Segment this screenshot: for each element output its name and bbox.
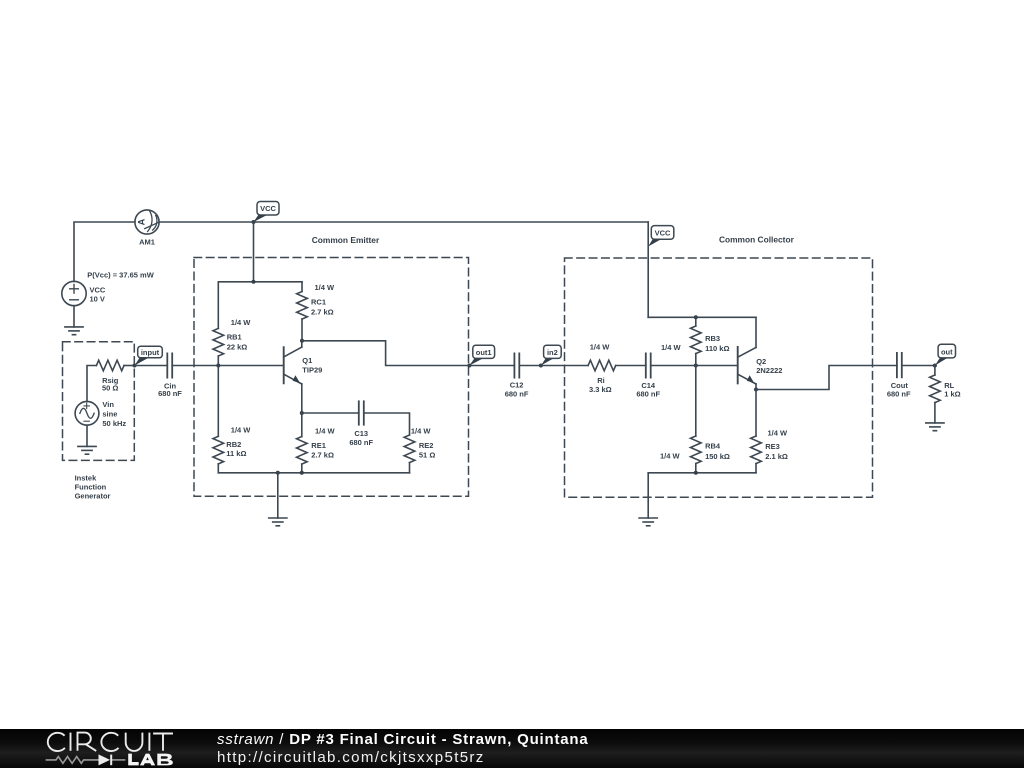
resistor RC1	[297, 292, 308, 320]
svg-text:RB2: RB2	[226, 440, 241, 449]
logo letter I	[70, 733, 72, 751]
labels RB2	[226, 425, 251, 458]
logo resistor	[46, 757, 99, 764]
node bottom rail RB4 junction	[694, 471, 698, 475]
labels RE3	[765, 428, 788, 461]
logo diode wire	[112, 759, 126, 761]
resistor RE2	[404, 435, 415, 463]
svg-text:680 nF: 680 nF	[636, 390, 660, 399]
labels Q1	[302, 356, 322, 375]
svg-text:Function: Function	[75, 483, 107, 492]
svg-text:11 kΩ: 11 kΩ	[226, 449, 246, 458]
wire Vin to Rsig	[87, 366, 96, 402]
node collector junction	[300, 339, 304, 343]
net flag input	[135, 346, 163, 365]
net flag out1	[469, 345, 494, 365]
svg-text:RE1: RE1	[311, 441, 326, 450]
svg-text:VCC: VCC	[655, 229, 671, 238]
logo LAB letter B	[157, 754, 173, 766]
wire Cin to Q1 base	[172, 365, 284, 367]
svg-text:Q2: Q2	[756, 357, 766, 366]
svg-text:Q1: Q1	[302, 356, 312, 365]
svg-text:10 V: 10 V	[90, 294, 105, 303]
capacitor C12	[514, 353, 519, 377]
svg-text:680 nF: 680 nF	[158, 389, 182, 398]
svg-text:Common Collector: Common Collector	[719, 235, 795, 245]
footer title line	[217, 731, 589, 748]
logo LAB letter A	[140, 754, 155, 766]
logo diode bar	[110, 755, 112, 766]
svg-text:1/4 W: 1/4 W	[315, 283, 336, 292]
node RB3 base junction	[694, 364, 698, 368]
wire C14 to Q2 base	[651, 365, 738, 367]
ground (Vin)	[78, 446, 96, 454]
resistor RL	[930, 375, 941, 403]
transistor Q2	[738, 317, 756, 389]
svg-text:TIP29: TIP29	[302, 366, 322, 375]
logo letter T	[153, 734, 173, 751]
ground (RL)	[926, 423, 944, 431]
capacitor C13	[359, 401, 364, 424]
labels C13	[349, 429, 373, 447]
svg-text:C12: C12	[510, 381, 524, 390]
wire CC top rail	[648, 316, 756, 318]
ground (CC)	[639, 518, 657, 526]
resistor RB4	[691, 436, 702, 464]
labels RL	[944, 381, 960, 399]
wire Ri to C14	[616, 365, 646, 367]
svg-text:Common Emitter: Common Emitter	[312, 235, 380, 245]
svg-text:2N2222: 2N2222	[756, 366, 782, 375]
labels RB4	[660, 442, 730, 461]
resistor RB3	[691, 326, 702, 354]
svg-text:1/4 W: 1/4 W	[231, 318, 252, 327]
logo LAB letter L	[128, 754, 139, 766]
resistor Ri	[588, 360, 616, 371]
logo letter C	[48, 733, 65, 751]
resistor Rsig	[96, 360, 124, 371]
svg-text:A: A	[136, 218, 146, 225]
svg-text:1 kΩ: 1 kΩ	[944, 390, 960, 399]
svg-text:1/4 W: 1/4 W	[661, 343, 682, 352]
node input junction	[133, 364, 137, 368]
node out1 junction	[467, 364, 471, 368]
capacitor C14	[646, 353, 651, 377]
labels Cin	[158, 382, 182, 399]
labels RB1	[227, 318, 252, 351]
ammeter AM1	[135, 210, 159, 246]
node Q2 emitter junction	[754, 388, 758, 392]
svg-text:680 nF: 680 nF	[349, 438, 373, 447]
svg-text:2.7 kΩ: 2.7 kΩ	[311, 450, 334, 459]
Common Emitter dashed box	[194, 258, 469, 497]
svg-text:VCC: VCC	[90, 285, 106, 294]
wire out to RL	[934, 366, 936, 376]
svg-text:RB3: RB3	[705, 334, 720, 343]
node emitter junction	[300, 411, 304, 415]
labels Cout	[887, 381, 911, 398]
CircuitLab logo	[0, 729, 210, 768]
wire RE3 to bottom rail	[755, 464, 757, 473]
logo letter C2	[101, 733, 118, 751]
wire rail to RC1	[301, 282, 303, 292]
Common Collector dashed box	[565, 258, 873, 497]
labels RE1	[311, 426, 335, 459]
resistor RB2	[213, 436, 224, 464]
svg-text:680 nF: 680 nF	[887, 390, 911, 399]
svg-text:Vin: Vin	[102, 400, 114, 409]
ground (CE)	[269, 518, 287, 526]
wire emitter to Cout	[756, 366, 897, 390]
node VCC junction	[252, 220, 256, 224]
svg-text:1/4 W: 1/4 W	[411, 426, 432, 435]
wire RB3 to base line	[695, 354, 697, 366]
svg-text:150 kΩ: 150 kΩ	[705, 452, 730, 461]
Instek function generator dashed box	[63, 342, 135, 461]
resistor RB1	[213, 328, 224, 356]
svg-text:RC1: RC1	[311, 297, 326, 306]
svg-text:RE2: RE2	[419, 441, 434, 450]
svg-text:680 nF: 680 nF	[505, 390, 529, 399]
wire collector to out1	[302, 341, 469, 366]
svg-text:sine: sine	[102, 410, 117, 419]
capacitor Cin	[167, 353, 172, 377]
wire VCC to ground	[73, 306, 75, 327]
wire RE1 to bottom rail	[301, 464, 303, 473]
svg-text:RE3: RE3	[765, 442, 780, 451]
svg-text:Instek: Instek	[75, 474, 98, 483]
svg-text:50 Ω: 50 Ω	[102, 384, 118, 393]
wire rail to RB1	[217, 282, 219, 329]
svg-text:1/4 W: 1/4 W	[660, 452, 681, 461]
logo letter I2	[148, 733, 150, 751]
wire C12 to in2	[519, 365, 541, 367]
wire top rail left segment	[74, 222, 135, 282]
svg-text:51 Ω: 51 Ω	[419, 450, 435, 459]
wire Cout to out node	[902, 365, 935, 367]
svg-text:RB4: RB4	[705, 442, 721, 451]
svg-text:VCC: VCC	[260, 204, 276, 213]
footer url line	[217, 749, 485, 766]
wire CE bottom rail	[218, 472, 409, 474]
labels RC1	[311, 283, 335, 316]
wire RB4 to bottom rail	[695, 464, 697, 473]
svg-text:2.1 kΩ: 2.1 kΩ	[765, 452, 788, 461]
svg-text:2.7 kΩ: 2.7 kΩ	[311, 307, 334, 316]
svg-text:out: out	[941, 347, 953, 356]
svg-text:RB1: RB1	[227, 332, 242, 341]
wire emitter to RE1	[301, 413, 303, 437]
net flag VCC (right)	[648, 226, 674, 247]
labels C14	[636, 381, 660, 398]
node bottom rail ground junction	[276, 471, 280, 475]
resistor RE1	[297, 437, 308, 465]
labels Vin	[102, 400, 126, 428]
wire Vin to ground	[86, 425, 88, 446]
svg-text:1/4 W: 1/4 W	[315, 426, 336, 435]
svg-text:50 kHz: 50 kHz	[102, 419, 126, 428]
wire VCC2 drop	[647, 222, 649, 317]
node RB1 base junction	[216, 364, 220, 368]
transistor Q1	[284, 341, 302, 413]
wire out1 to C12	[469, 365, 514, 367]
wire RB4	[695, 366, 697, 437]
svg-text:P(Vcc) = 37.65 mW: P(Vcc) = 37.65 mW	[87, 271, 154, 280]
labels C12	[505, 381, 529, 399]
svg-text:22 kΩ: 22 kΩ	[227, 342, 248, 351]
wire top rail right segment	[159, 221, 648, 223]
logo diode triangle	[99, 754, 111, 765]
node CE rail junction	[252, 280, 256, 284]
logo letter U	[126, 733, 143, 751]
wire CC bottom rail	[648, 472, 756, 474]
node CC rail junction	[694, 315, 698, 319]
svg-text:Ri: Ri	[597, 376, 605, 385]
wire C13 to RE2	[364, 413, 410, 435]
svg-text:1/4 W: 1/4 W	[768, 428, 789, 437]
resistor RE3	[751, 436, 762, 464]
net flag VCC (left)	[254, 202, 280, 223]
wire RB1 to base line	[217, 356, 219, 366]
labels Ri	[589, 342, 612, 394]
wire Rsig to input node	[124, 365, 135, 367]
wire RE2 to bottom rail	[409, 463, 411, 473]
Instek label	[75, 474, 111, 501]
wire CE ground stem	[277, 473, 279, 518]
labels Q2	[756, 357, 782, 375]
wire RB2	[217, 366, 219, 437]
node out junction	[933, 364, 937, 368]
svg-text:1/4 W: 1/4 W	[590, 342, 611, 351]
labels RB3	[661, 334, 729, 353]
svg-text:out1: out1	[476, 348, 492, 357]
logo letter R	[78, 733, 97, 751]
wire emitter to C13	[302, 412, 359, 414]
capacitor Cout	[897, 353, 902, 377]
labels RE2	[411, 426, 435, 459]
wire RE3	[755, 390, 757, 437]
svg-text:C13: C13	[354, 429, 368, 438]
wire CC ground stem	[647, 473, 649, 518]
wire RB2 to bottom rail	[217, 464, 219, 473]
net flag in2	[541, 345, 561, 365]
net flag out	[935, 344, 956, 365]
ground (VCC source)	[65, 327, 83, 335]
voltage source VCC	[62, 281, 106, 305]
wire rail to RB3	[695, 317, 697, 326]
wire RC1 to collector node	[301, 319, 303, 341]
svg-text:Generator: Generator	[75, 492, 111, 501]
svg-text:AM1: AM1	[139, 237, 155, 246]
wire CE top rail	[218, 281, 302, 283]
svg-text:3.3 kΩ: 3.3 kΩ	[589, 385, 612, 394]
node in2 junction	[539, 364, 543, 368]
voltage source Vin	[75, 401, 99, 425]
wire input to Cin	[135, 365, 168, 367]
svg-text:1/4 W: 1/4 W	[231, 425, 252, 434]
wire RL to ground	[934, 403, 936, 423]
svg-text:110 kΩ: 110 kΩ	[705, 344, 729, 353]
node bottom rail RE1 junction	[300, 471, 304, 475]
wire in2 to Ri	[541, 365, 588, 367]
footer bar	[0, 729, 1024, 768]
svg-text:in2: in2	[547, 348, 558, 357]
wire VCC drop into CE	[253, 222, 255, 282]
svg-text:input: input	[141, 348, 160, 357]
